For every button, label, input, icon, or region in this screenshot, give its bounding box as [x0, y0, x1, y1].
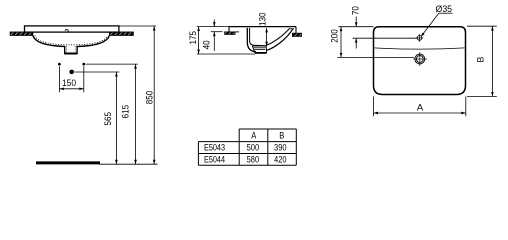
svg-text:70: 70: [351, 6, 362, 15]
svg-text:A: A: [251, 130, 257, 141]
svg-text:615: 615: [121, 105, 132, 119]
svg-text:500: 500: [247, 143, 260, 154]
svg-text:E5043: E5043: [204, 143, 225, 154]
svg-text:390: 390: [274, 143, 287, 154]
svg-text:A: A: [417, 102, 424, 113]
svg-text:150: 150: [62, 78, 76, 89]
svg-text:175: 175: [188, 31, 199, 45]
svg-text:565: 565: [103, 112, 114, 126]
svg-text:850: 850: [145, 91, 156, 105]
svg-text:130: 130: [257, 13, 268, 27]
svg-text:580: 580: [247, 154, 260, 165]
svg-text:B: B: [279, 130, 284, 141]
svg-text:420: 420: [274, 154, 287, 165]
svg-text:40: 40: [201, 40, 212, 49]
svg-text:B: B: [475, 56, 485, 62]
svg-text:E5044: E5044: [204, 154, 225, 165]
svg-text:200: 200: [330, 29, 341, 43]
